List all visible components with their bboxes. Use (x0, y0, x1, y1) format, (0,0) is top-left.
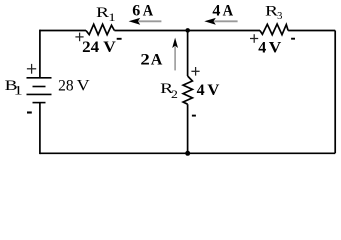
R1 minus sign (117, 38, 122, 40)
current label 4 A (212, 2, 233, 19)
wire middle branch upper (187, 30, 189, 76)
svg-text:3: 3 (277, 11, 282, 22)
svg-text:1: 1 (108, 12, 116, 24)
svg-text:2: 2 (140, 52, 149, 69)
wire bottom (40, 152, 335, 154)
R3 plus sign (250, 34, 258, 43)
label R1 (96, 5, 116, 24)
battery minus sign (27, 111, 32, 113)
wire top-left segment (40, 30, 86, 32)
svg-text:A: A (223, 2, 234, 19)
battery B1 (27, 78, 52, 103)
svg-text:6: 6 (132, 2, 140, 19)
svg-text:24: 24 (82, 39, 99, 56)
wire left edge upper (39, 30, 41, 78)
R1 plus sign (75, 33, 83, 42)
svg-text:4: 4 (197, 82, 205, 99)
wire left edge lower (39, 103, 41, 155)
svg-text:A: A (143, 2, 154, 19)
node B junction dot bottom (185, 151, 190, 156)
current label 2 A (140, 52, 162, 69)
resistor R2 (183, 76, 192, 104)
wire top-right segment (288, 30, 335, 32)
R2 minus sign (192, 115, 196, 117)
svg-text:1: 1 (14, 83, 23, 97)
value 24 V (82, 39, 116, 56)
svg-text:A: A (151, 52, 163, 69)
value 4 V R3 (258, 39, 282, 56)
svg-text:V: V (269, 39, 282, 56)
label R3 (265, 4, 282, 23)
R2 plus sign (191, 67, 199, 76)
label B1 (5, 78, 23, 97)
resistor R3 (260, 24, 288, 35)
svg-text:R: R (96, 5, 109, 21)
svg-text:V: V (207, 82, 219, 99)
current arrow 2 A (172, 38, 178, 71)
wire right edge (334, 31, 336, 154)
svg-text:4: 4 (258, 39, 266, 56)
svg-text:28: 28 (58, 77, 74, 94)
wire middle branch lower (187, 104, 189, 153)
label R2 (160, 81, 178, 101)
node A junction dot top (185, 28, 190, 33)
svg-text:2: 2 (171, 89, 178, 101)
battery plus sign (27, 64, 36, 74)
current arrow 4 A (204, 18, 237, 25)
current arrow 6 A (129, 18, 162, 25)
resistor R1 (86, 24, 114, 34)
svg-text:V: V (77, 77, 91, 94)
current label 6 A (132, 2, 153, 19)
svg-text:4: 4 (212, 2, 220, 19)
svg-text:R: R (265, 4, 278, 20)
value 4 V R2 (197, 82, 220, 99)
value 28 V (58, 77, 91, 94)
R3 minus sign (291, 38, 295, 40)
wire top-middle segment (114, 30, 260, 32)
svg-text:V: V (103, 39, 116, 56)
